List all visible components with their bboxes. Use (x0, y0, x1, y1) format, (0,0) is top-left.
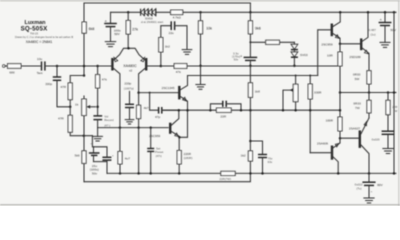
capacitor 220p from Q1 collector area (124, 82, 134, 120)
resistor 6k8 input bias (82, 22, 86, 33)
node bias emitter junction (178, 136, 181, 139)
ground under 0.47u (380, 42, 390, 47)
input terminal (2, 65, 5, 68)
wire 6k8 down to input line (83, 33, 85, 75)
svg-text:2SC1345: 2SC1345 (162, 86, 175, 90)
node divider mid (69, 106, 72, 109)
diode SV03 upper (291, 42, 298, 49)
svg-text:x2: x2 (129, 69, 133, 73)
svg-text:330p: 330p (45, 82, 52, 86)
svg-text:XA480C = 2N841: XA480C = 2N841 (26, 40, 53, 44)
capacitor bypass over 22R (210, 101, 241, 111)
capacitor 22u (169, 21, 187, 49)
node driver emitter (339, 43, 342, 46)
svg-text:2SD188: 2SD188 (349, 55, 360, 59)
resistor 0R33 lower (353, 93, 371, 119)
wire L1 drop to 6k8 (83, 3, 85, 22)
capacitor output RC (250, 141, 272, 173)
svg-text:1k2: 1k2 (241, 154, 246, 158)
svg-text:(Tu): (Tu) (356, 186, 361, 190)
capacitor 0.47u rail (369, 12, 397, 42)
node L8 1k8 (249, 109, 252, 112)
node L3 47k tap (96, 65, 99, 68)
node L8 VAS emitter (186, 109, 189, 112)
wire 10k to bias line (200, 34, 202, 66)
ground stub below 10k node (196, 66, 205, 90)
svg-text:100R: 100R (326, 118, 334, 122)
node right diff base (160, 65, 163, 68)
wire input line L3 (46, 65, 112, 67)
svg-text:1k: 1k (75, 102, 79, 106)
svg-text:5k6: 5k6 (75, 154, 80, 158)
resistor 1k2 output RC (241, 151, 253, 174)
ground under vol record node (93, 128, 103, 141)
svg-text:+: + (105, 18, 108, 23)
svg-text:0R33: 0R33 (353, 102, 361, 106)
diode SV03 lower (291, 50, 308, 66)
potentiometer bias adjust (283, 76, 298, 111)
svg-text:1k2: 1k2 (165, 44, 170, 48)
ground zobel (383, 149, 393, 154)
resistor 1k2 (159, 26, 171, 52)
resistor 4k7 VAS base load (137, 93, 149, 128)
transistor driver 2SC959 (318, 12, 341, 75)
label 15u 100u 50v (90, 164, 99, 176)
wire L1 drop to main rail (249, 3, 251, 12)
svg-text:4.7kΩ: 4.7kΩ (173, 16, 182, 20)
wire bottom rail L9 (107, 172, 396, 174)
resistor 47k bias (174, 64, 187, 75)
node rail-27k (127, 11, 130, 14)
node 6k8col-47R tap (83, 74, 86, 77)
node L9 RC resistor (249, 172, 252, 175)
svg-text:9k6: 9k6 (255, 27, 261, 31)
resistor 6k8 second stage (248, 12, 260, 34)
svg-text:63v: 63v (268, 160, 273, 164)
scan edge right (398, 0, 400, 206)
node L9 220R (178, 172, 181, 175)
transistor bias 2SC959 (149, 110, 179, 138)
wire top rail L1 (84, 2, 250, 4)
node pot bottom (83, 134, 86, 137)
node L8 pot bottom (294, 109, 297, 112)
svg-text:47k: 47k (176, 70, 181, 74)
node lower output base tap (339, 137, 342, 140)
node L9 mid column (137, 172, 140, 175)
node Lout 0R33 (368, 91, 371, 94)
svg-text:22u: 22u (169, 31, 174, 35)
node L8 22R right (240, 109, 243, 112)
wire VAS base line L6 (139, 92, 178, 94)
svg-text:(1u): (1u) (370, 32, 375, 36)
node L4 diode column (293, 65, 296, 68)
wire main positive rail L2 (111, 11, 397, 13)
svg-text:(180R): (180R) (184, 156, 193, 160)
resistor 4u7 nfb leg (118, 128, 130, 174)
resistor 10R driver load (327, 44, 342, 93)
ground output cap (364, 198, 374, 203)
scan edge top (0, 0, 400, 2)
svg-text:Record: Record (104, 118, 114, 122)
ground below 100u (105, 42, 115, 47)
wire output RC column (249, 110, 251, 151)
resistor 22R zobel (386, 93, 398, 132)
node 47k-wiper (96, 106, 99, 109)
svg-text:2SA627: 2SA627 (349, 126, 360, 130)
svg-text:50v: 50v (234, 57, 239, 61)
resistor 330R (308, 76, 322, 153)
resistor 22R output rail (219, 171, 235, 181)
svg-text:10u: 10u (37, 57, 42, 61)
svg-text:47R: 47R (58, 117, 64, 121)
svg-text:0R33: 0R33 (353, 72, 361, 76)
wire bias base line L7 (98, 127, 169, 129)
node 330p tap (56, 65, 59, 68)
wire to 47R upper (70, 76, 84, 83)
node L4 6k8 column (249, 65, 252, 68)
svg-text:220p: 220p (124, 82, 131, 86)
svg-text:(100?p): (100?p) (124, 87, 134, 91)
wire bias line L4 (161, 65, 340, 67)
wire 4k7 column down to bottom rail (138, 128, 140, 174)
node L8 22R left (209, 109, 212, 112)
node L9 right edge (393, 172, 396, 175)
capacitor output coupling (355, 173, 384, 197)
resistor 680 input (8, 64, 22, 75)
svg-text:50V: 50V (114, 32, 120, 36)
svg-text:2SC959: 2SC959 (321, 42, 332, 46)
node L7 4k7 column (137, 126, 140, 129)
svg-text:0.487: 0.487 (369, 28, 377, 32)
wire 47R upper to mid node (69, 100, 71, 116)
transistor output 2SA627 (340, 118, 369, 173)
node 6k8-1k5 branch (249, 41, 251, 43)
capacitor 330p (45, 66, 70, 107)
svg-text:(47-): (47-) (104, 123, 110, 127)
wire 1k2 column to diff base node (160, 52, 162, 66)
svg-text:4u7: 4u7 (125, 156, 130, 160)
ground below 22u (182, 50, 192, 55)
node rail output collector (367, 11, 370, 14)
wire right edge vertical (393, 12, 395, 173)
svg-text:SV03: SV03 (300, 53, 308, 57)
svg-text:0u020: 0u020 (372, 138, 380, 142)
svg-text:+: + (380, 18, 382, 22)
node L9 output cap (368, 172, 371, 175)
wire 27k to diff tail (127, 34, 129, 48)
node 47p riser (149, 92, 151, 94)
node rail-6k8 (249, 11, 252, 14)
resistor 22R with bypass (216, 108, 231, 119)
node L7 preset cap (149, 126, 152, 129)
capacitor 15u electrolytic (89, 142, 100, 162)
transistor Q1 left of diff pair XA480C (112, 48, 128, 127)
node Lout right edge (393, 91, 396, 94)
svg-text:(47r): (47r) (156, 154, 162, 158)
node Lout driver column (339, 91, 342, 94)
svg-text:TM-15: TM-15 (30, 31, 39, 35)
wire NFB cap node (92, 136, 107, 158)
svg-text:10k: 10k (206, 27, 212, 31)
resistor 1k5 horizontal (250, 40, 294, 44)
svg-text:50v: 50v (92, 171, 97, 175)
capacitor idle preset (147, 128, 154, 174)
svg-text:+: + (90, 142, 92, 146)
svg-text:Drawn by C J Lu changes found: Drawn by C J Lu changes found to be ad c… (15, 35, 73, 39)
node diff tail (127, 47, 130, 50)
diode string 4x on rail (141, 9, 156, 16)
capacitor 100u NFB second (94, 153, 115, 173)
capacitor 47p (150, 93, 179, 119)
wire 47R lower to pot bottom line (70, 132, 92, 135)
node L9 4k7nfb (119, 172, 122, 175)
wire lower return rail (84, 173, 250, 181)
node rail right corner (393, 11, 396, 14)
ground under 220p (125, 120, 134, 124)
resistor 100R lower driver (326, 117, 343, 143)
transistor VAS 2SC1345 (162, 76, 188, 138)
wire input (5, 65, 7, 67)
svg-text:2SA606: 2SA606 (317, 141, 328, 145)
transistor Q2 right of diff pair XA480C (129, 48, 161, 92)
capacitor 100u rail decoupling (104, 12, 121, 41)
node L3 bias column (83, 65, 86, 68)
wire output line Lout (340, 92, 396, 94)
node Lout zobel (387, 91, 390, 94)
resistor 5k6 feedback (75, 136, 87, 182)
node L8 bias collector (178, 109, 181, 112)
wire driver column through L8 (339, 93, 341, 118)
capacitor electrolytic on bias chain (232, 51, 257, 65)
capacitor vol record (93, 115, 114, 128)
node RC branch (249, 140, 252, 143)
resistor 1k8 (248, 66, 260, 110)
svg-text:+: + (112, 153, 114, 157)
svg-text:10R: 10R (327, 53, 333, 57)
capacitor 10u input (37, 57, 45, 75)
transistor output 2SD188 (340, 12, 369, 70)
wire compensation line L8 (162, 109, 340, 111)
resistor 220R bias (177, 137, 192, 173)
node L5 330R (309, 75, 311, 77)
scan edge bottom (0, 204, 400, 206)
capacitor zobel (372, 131, 395, 148)
node L4 10k (199, 65, 202, 68)
resistor 27k (126, 12, 138, 34)
node L5 pot (295, 75, 297, 77)
svg-text:XA480C: XA480C (123, 64, 137, 68)
svg-text:47p: 47p (155, 115, 160, 119)
svg-text:27k: 27k (132, 27, 138, 31)
node rail 0.47u (384, 11, 387, 14)
svg-text:7W: 7W (355, 106, 360, 110)
svg-text:330R: 330R (314, 91, 322, 95)
resistor 0R33 upper (353, 71, 371, 93)
svg-text:+: + (371, 189, 373, 193)
transistor driver 2SA606 (310, 138, 340, 173)
svg-text:1W: 1W (393, 109, 398, 113)
node L7 Q1 collector (119, 126, 122, 129)
svg-text:6k8: 6k8 (89, 27, 95, 31)
svg-text:Tant: Tant (37, 71, 43, 75)
node rail-10k (199, 11, 202, 14)
node L8 330R (309, 109, 312, 112)
resistor 4.7k on rail (171, 10, 183, 20)
node L8 wiper (282, 109, 285, 112)
svg-text:d-st 2N4001 start: d-st 2N4001 start (141, 20, 163, 24)
wire VAS collector line L5 (188, 75, 318, 77)
svg-text:47R: 47R (60, 85, 66, 89)
svg-text:47k: 47k (102, 78, 107, 82)
resistor 47R upper (60, 83, 72, 100)
label idle preset (155, 146, 164, 158)
node L9 RC cap (261, 172, 264, 175)
resistor 47R lower (58, 115, 72, 132)
svg-text:1k8: 1k8 (255, 89, 260, 93)
node L8 end (339, 109, 342, 112)
wire input to cap (21, 65, 40, 67)
resistor 47k NFB (96, 66, 108, 116)
wire 6k8 column down (249, 34, 251, 57)
svg-text:+: + (240, 54, 242, 58)
svg-text:680: 680 (9, 71, 14, 75)
potentiometer 1k (75, 96, 96, 136)
node rail driver collector (339, 11, 342, 14)
svg-text:22R: 22R (220, 115, 226, 119)
svg-text:80V: 80V (377, 183, 383, 187)
node L9 2SA606 (337, 172, 340, 175)
svg-text:4k7: 4k7 (144, 106, 149, 110)
resistor 10k (198, 12, 212, 34)
node Q2 collector to VAS base (137, 91, 140, 94)
svg-text:22R(7W): 22R(7W) (219, 177, 231, 181)
svg-text:5W: 5W (355, 77, 360, 81)
node L9 preset cap (149, 172, 152, 175)
